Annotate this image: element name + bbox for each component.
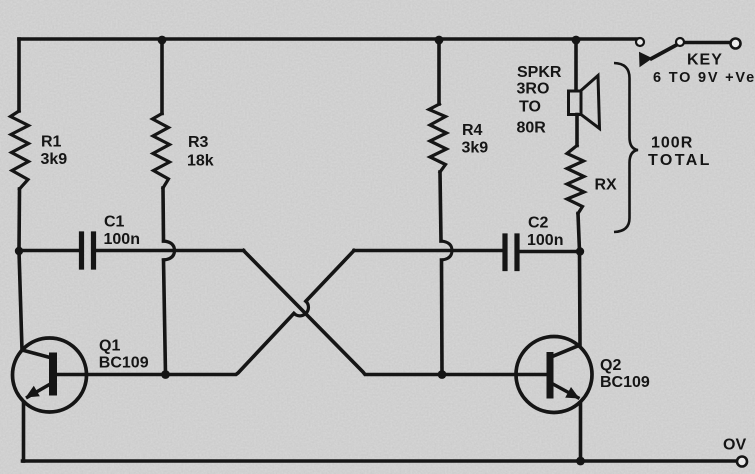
wire hop: R4 line over C2 wire [441, 241, 452, 260]
brace: 100R total [614, 63, 638, 232]
wire: Q2 collector lead [551, 252, 580, 358]
speaker SPKR magnet rectangle [569, 91, 582, 115]
resistor R4 [429, 104, 447, 172]
node: bottom rail / Q2 emitter junction [576, 457, 585, 466]
wire: C1 left lead [19, 249, 79, 253]
capacitor C2 [505, 236, 517, 269]
wire: left vertical below R1 to C1 node [17, 189, 21, 251]
wire: cross diagonal C2 to Q1 base upper segment [306, 251, 354, 302]
node: top rail / R3 junction [158, 36, 167, 45]
wire: cross diagonal C2 to Q1 base lower segment [166, 313, 294, 374]
wire: Q1 base wire [56, 373, 166, 377]
wire: R3 branch upper [160, 39, 164, 114]
wire: C2 right lead [520, 250, 581, 254]
wire: R4 vertical below zigzag to hop [440, 172, 441, 241]
wire: C1 right lead to cross corner [96, 249, 244, 253]
resistor RX [567, 146, 584, 214]
wire: switch to battery terminal [684, 41, 730, 45]
wire: Q1 emitter to bottom rail [22, 402, 26, 461]
speaker SPKR cone [581, 76, 600, 129]
resistor R3 [153, 114, 170, 189]
node: top rail / R4 junction [435, 36, 444, 45]
wire: Q2 emitter to bottom rail [579, 404, 583, 461]
battery + terminal [731, 39, 741, 49]
transistor Q1 [13, 338, 87, 412]
node: Q1 base / R3 / C2 junction [161, 370, 170, 379]
node: top rail / speaker junction [572, 36, 581, 45]
wire: top supply rail [19, 37, 637, 41]
transistor Q2 [516, 337, 592, 413]
wire: C2 left lead from corner to plate [354, 249, 502, 253]
wire hop: C2 diagonal over C1 diagonal at crossing [294, 301, 309, 316]
wire: cross diagonal C1 to Q2 base (upper-left to lower-right) [244, 251, 443, 375]
node: Q2 base / R4 / C1 junction [438, 370, 447, 379]
wire: R3 vertical below zigzag to hop [161, 188, 165, 241]
0V terminal [737, 457, 747, 467]
wire hop: R3 line over C1 wire [164, 241, 175, 260]
wire: left vertical (R1 branch upper) [17, 39, 21, 111]
capacitor C1 [82, 234, 94, 267]
wire: between speaker and RX [575, 115, 579, 146]
wire: speaker branch upper [574, 39, 578, 91]
wire: RX to C2 node [578, 214, 580, 252]
wire: R3 vertical from hop down to Q1 base node [164, 260, 166, 375]
switch KEY terminal 2 [676, 38, 684, 46]
resistor R1 [11, 111, 29, 189]
wire: R4 branch upper [437, 39, 441, 104]
node: Q1 collector / C1 junction [15, 247, 23, 255]
switch KEY lever [652, 45, 677, 59]
node: Q2 collector / C2 junction [576, 247, 584, 255]
wire: Q1 collector lead [19, 251, 52, 358]
wire: Q2 base wire [442, 373, 547, 377]
switch KEY terminal 1 [636, 38, 644, 46]
wire: bottom 0V rail [23, 459, 737, 463]
switch KEY knob wedge [639, 52, 653, 67]
wire: R4 vertical from hop to Q2 base node [440, 260, 444, 375]
